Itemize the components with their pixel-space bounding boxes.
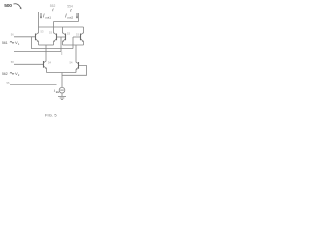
svg-text:58: 58	[11, 60, 14, 64]
svg-text:56: 56	[11, 33, 14, 37]
svg-text:54: 54	[70, 60, 73, 64]
svg-text:1: 1	[18, 43, 20, 46]
svg-text:out2: out2	[67, 15, 73, 19]
svg-text:53: 53	[67, 32, 70, 36]
svg-text:554: 554	[67, 5, 73, 9]
svg-text:EE: EE	[56, 91, 60, 94]
svg-text:2: 2	[18, 74, 20, 77]
svg-text:552: 552	[50, 4, 56, 8]
svg-text:out1: out1	[45, 15, 51, 19]
svg-text:561: 561	[2, 41, 8, 45]
svg-text:53: 53	[76, 32, 79, 36]
svg-text:FIG. 5: FIG. 5	[45, 112, 57, 117]
svg-text:54: 54	[48, 61, 51, 65]
svg-text:500: 500	[4, 3, 12, 9]
svg-text:562: 562	[2, 72, 8, 76]
svg-text:53: 53	[41, 29, 44, 33]
svg-text:55: 55	[7, 81, 10, 85]
svg-text:53: 53	[49, 31, 52, 35]
